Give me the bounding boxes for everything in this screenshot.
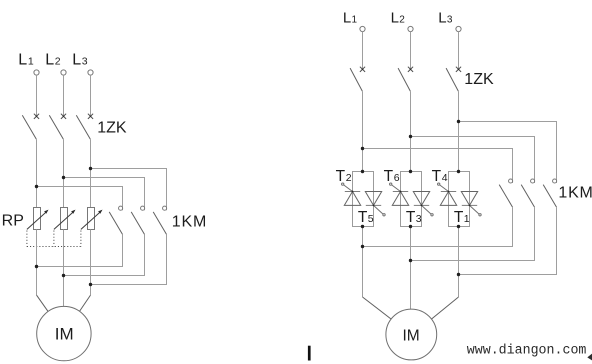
junction dot right (458.5,274.5) (457, 273, 460, 276)
dotted gang link vertical 1 (26, 231, 28, 247)
switch 1ZK pole1 blade (22, 115, 36, 139)
label L1 (right) (343, 10, 358, 27)
wire phase3 right below 1ZK (458, 91, 460, 171)
thyristor T3 gate lead (421, 205, 434, 216)
switch 1ZK right pole2 blade (398, 68, 410, 91)
thyristor T6 triangle (conducts up) (392, 192, 408, 206)
thyristor T3 cathode bar (414, 204, 429, 206)
resistor RP element1 wiper arrow (27, 210, 49, 230)
motor IM (left) circle (37, 306, 91, 360)
svg-text:1ZK: 1ZK (97, 120, 127, 137)
svg-text:1ZK: 1ZK (464, 71, 494, 88)
thyristor T3 triangle (conducts down) (413, 192, 429, 206)
svg-text:T: T (384, 168, 394, 185)
wire phase1 right below unit1 (362, 227, 364, 298)
motor lead diagonal right (right IM) (431, 297, 458, 319)
label L2 (right) (391, 10, 406, 27)
wire 1KM right pole1 return (363, 207, 513, 246)
node L3 (right) terminal circle (456, 26, 461, 31)
junction dot left (63.5,275.5) (62, 274, 65, 277)
svg-text:IM: IM (402, 327, 419, 344)
wire phase2 below 1ZK (63, 139, 65, 207)
contactor 1KM right pole1 contact circle (509, 179, 513, 183)
svg-text:3: 3 (447, 15, 453, 26)
thyristor T1 triangle (conducts down) (461, 192, 477, 206)
wire L1 down to 1ZK contact (36, 75, 38, 116)
dotted gang link horizontal (27, 246, 81, 248)
svg-text:RP: RP (2, 213, 24, 230)
thyristor T1 gate lead (469, 205, 482, 216)
switch 1ZK right pole3 blade (446, 68, 458, 91)
node L2 (left) terminal circle (61, 70, 66, 75)
svg-text:2: 2 (55, 55, 61, 67)
wire branch right phase3 to 1KM pole3 (459, 122, 557, 184)
junction dot right (458.5,226.5) (457, 225, 460, 228)
wire phase2 right below 1ZK (410, 91, 412, 171)
contactor 1KM right pole2 contact circle (531, 179, 535, 183)
junction dot right (362.5,226.5) (361, 225, 364, 228)
svg-text:1KM: 1KM (172, 213, 207, 230)
contactor 1KM pole3 contact circle (163, 206, 167, 210)
thyristor T6 cathode bar (393, 191, 408, 193)
wire branch phase2 to 1KM pole2 (64, 178, 145, 211)
contactor 1KM right pole2 blade (521, 185, 534, 208)
svg-text:L: L (391, 10, 399, 27)
wire 1KM right pole3 return (459, 207, 557, 274)
svg-text:L: L (18, 51, 27, 68)
thyristor T4 gate lead (438, 183, 450, 192)
svg-text:1KM: 1KM (558, 184, 592, 201)
contact X mark phase2 (61, 114, 66, 119)
wire branch phase1 to 1KM pole1 (37, 187, 123, 211)
wire phase1 below 1ZK (36, 139, 38, 207)
contactor 1KM pole1 blade (109, 212, 122, 235)
svg-text:1: 1 (28, 55, 34, 67)
node L3 (left) terminal circle (88, 70, 93, 75)
svg-text:T: T (406, 209, 416, 226)
thyristor T2 cathode bar (345, 191, 360, 193)
label L1 (left) (18, 51, 34, 68)
label L3 (right) (438, 10, 453, 27)
junction dot left (90.5,168.5) (89, 167, 92, 170)
svg-text:L: L (343, 10, 351, 27)
junction dot left (36.5,266.5) (35, 265, 38, 268)
label T3 (406, 209, 422, 226)
thyristor T4 triangle (conducts up) (440, 192, 456, 206)
junction dot left (90.5,284.5) (89, 283, 92, 286)
svg-text:1: 1 (352, 15, 358, 26)
contactor 1KM pole2 blade (131, 212, 144, 235)
contactor 1KM pole2 contact circle (141, 206, 145, 210)
node L2 (right) terminal circle (408, 26, 413, 31)
svg-text:2: 2 (346, 172, 352, 184)
svg-text:T: T (336, 168, 346, 185)
wire L2 right down to 1ZK contact (410, 32, 412, 70)
resistor RP element2 wiper arrow (54, 210, 76, 230)
contact X mark phase2 right (408, 67, 413, 72)
junction dot right (458.5,121.5) (457, 120, 460, 123)
wire phase3 right below unit3 (458, 227, 460, 298)
wire 1KM pole3 return (91, 234, 167, 284)
contact X mark phase1 (34, 114, 39, 119)
junction dot left (36.5,186.5) (35, 185, 38, 188)
wire branch right phase2 to 1KM pole2 (411, 137, 535, 184)
label L3 (left) (72, 51, 88, 68)
wire phase1 below RP (36, 230, 38, 296)
contact X mark phase1 right (360, 67, 365, 72)
label T5 (358, 209, 374, 226)
junction dot right (362.5,148.5) (361, 147, 364, 150)
wire 1KM pole2 return (64, 234, 145, 275)
svg-text:3: 3 (82, 55, 88, 67)
junction dot right (458.5,171.5) (457, 170, 460, 173)
svg-text:www.diangon.com: www.diangon.com (467, 344, 587, 359)
small arrow artifact bottom right (587, 354, 592, 361)
resistor RP element3 body (88, 208, 95, 230)
wire L1 right down to 1ZK contact (362, 32, 364, 70)
wire 1KM pole1 return (37, 234, 123, 266)
switch 1ZK pole3 blade (76, 115, 90, 139)
wire branch right phase1 to 1KM pole1 (363, 149, 513, 184)
junction dot right (410.5,171.5) (409, 170, 412, 173)
contactor 1KM right pole1 blade (499, 185, 512, 208)
resistor RP element3 wiper arrow (81, 210, 103, 230)
contactor 1KM pole3 blade (153, 212, 166, 235)
junction dot right (362.5,171.5) (361, 170, 364, 173)
junction dot right (410.5,136.5) (409, 135, 412, 138)
thyristor T5 cathode bar (366, 204, 381, 206)
wire phase2 right below unit2 to motor (410, 227, 412, 312)
svg-text:3: 3 (416, 213, 422, 225)
svg-text:L: L (45, 51, 54, 68)
dotted gang link vertical 3 (80, 231, 82, 247)
junction dot right (410.5,260.5) (409, 259, 412, 262)
thyristor T1 cathode bar (462, 204, 477, 206)
thyristor unit1 box (353, 172, 374, 227)
motor lead diagonal left (right IM) (363, 297, 392, 319)
svg-text:5: 5 (368, 213, 374, 225)
contactor 1KM pole1 contact circle (119, 206, 123, 210)
wire phase1 right below 1ZK (362, 91, 364, 171)
svg-text:1: 1 (464, 213, 470, 225)
label T4 (432, 168, 448, 185)
thyristor unit3 box (449, 172, 470, 227)
label T6 (384, 168, 400, 185)
wire L3 down to 1ZK contact (90, 75, 92, 116)
svg-text:6: 6 (394, 172, 400, 184)
cursor bar artifact (308, 346, 311, 361)
switch 1ZK right pole1 blade (350, 68, 362, 91)
contact X mark phase3 right (456, 67, 461, 72)
wire L2 down to 1ZK contact (63, 75, 65, 116)
junction dot left (63.5,177.5) (62, 176, 65, 179)
thyristor T6 gate lead (390, 183, 402, 192)
wire 1KM right pole2 return (411, 207, 535, 260)
svg-text:L: L (72, 51, 81, 68)
wire branch phase3 to 1KM pole3 (91, 169, 167, 211)
contact X mark phase3 (88, 114, 93, 119)
junction dot right (362.5,246.5) (361, 245, 364, 248)
wire phase3 below RP (90, 230, 92, 296)
svg-text:L: L (438, 10, 446, 27)
switch 1ZK pole2 blade (49, 115, 63, 139)
svg-text:2: 2 (399, 15, 405, 26)
label L2 (left) (45, 51, 61, 68)
motor lead diagonal right (left IM) (77, 295, 90, 315)
svg-text:4: 4 (442, 172, 448, 184)
svg-text:T: T (358, 209, 368, 226)
thyristor T4 cathode bar (441, 191, 456, 193)
resistor RP element2 body (61, 208, 68, 230)
node L1 (left) terminal circle (34, 70, 39, 75)
thyristor T2 gate lead (342, 183, 354, 192)
dotted gang link vertical 2 (53, 231, 55, 247)
wire L3 right down to 1ZK contact (458, 32, 460, 70)
label T2 (336, 168, 352, 185)
contactor 1KM right pole3 blade (543, 185, 556, 208)
motor IM (right) circle (386, 309, 437, 360)
contactor 1KM right pole3 contact circle (553, 179, 557, 183)
thyristor unit2 box (401, 172, 422, 227)
resistor RP element1 body (34, 208, 41, 230)
wire phase3 below 1ZK (90, 139, 92, 207)
label T1 (454, 209, 470, 226)
node L1 (right) terminal circle (360, 26, 365, 31)
thyristor T5 triangle (conducts down) (365, 192, 381, 206)
thyristor T5 gate lead (373, 205, 386, 216)
wire phase2 below RP to motor (63, 230, 65, 311)
svg-text:IM: IM (55, 325, 74, 344)
thyristor T2 triangle (conducts up) (344, 192, 360, 206)
svg-text:T: T (454, 209, 464, 226)
svg-text:T: T (432, 168, 442, 185)
junction dot right (410.5,226.5) (409, 225, 412, 228)
motor lead diagonal left (left IM) (37, 295, 51, 315)
